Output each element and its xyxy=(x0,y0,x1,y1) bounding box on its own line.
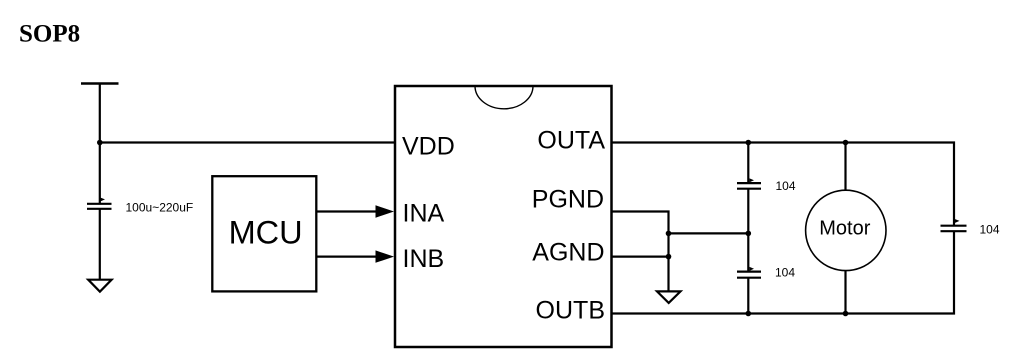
wire: supply vertical lower segment xyxy=(99,209,101,280)
polarity mark on bulk capacitor xyxy=(101,198,106,202)
wire OUTB (IC to right rail) xyxy=(612,231,955,313)
wire PGND (IC stub, down to ground) xyxy=(612,212,669,292)
capacitor 104 (right) plates xyxy=(941,225,967,227)
wire OUTA (IC to right rail) xyxy=(612,143,955,226)
wire: supply vertical upper segment xyxy=(99,84,101,204)
capacitor C-bulk 100u~220uF plates xyxy=(87,203,112,205)
ground (right) xyxy=(657,291,681,303)
capacitor 104 (lower) plates xyxy=(737,271,761,273)
junction: supply node dot xyxy=(97,140,103,146)
MCU box xyxy=(212,176,316,291)
svg-text:104: 104 xyxy=(775,266,795,280)
ground (left) xyxy=(88,280,111,292)
polarity mark right 104 xyxy=(955,219,960,223)
svg-text:VDD: VDD xyxy=(402,133,455,161)
junction dot capacitor midpoint xyxy=(746,231,752,237)
svg-text:OUTA: OUTA xyxy=(537,127,605,155)
svg-text:INB: INB xyxy=(403,245,445,273)
wire/arrow INB (MCU to IC) xyxy=(316,256,377,258)
wire/arrow INA (MCU to IC) xyxy=(316,210,377,212)
svg-text:OUTB: OUTB xyxy=(536,297,605,325)
junction dots on OUTB rail xyxy=(746,311,752,317)
svg-text:PGND: PGND xyxy=(532,186,604,214)
polarity mark lower 104 xyxy=(750,267,755,271)
motor M1 circle xyxy=(806,190,886,270)
junction dot PGND/branch xyxy=(666,231,672,237)
capacitor 104 (upper) plates xyxy=(737,182,761,184)
pin-1 notch arc xyxy=(475,86,533,109)
wire VDD (supply node to IC) xyxy=(100,141,396,143)
svg-text:Motor: Motor xyxy=(819,218,870,240)
junction dots on OUTA rail xyxy=(746,140,752,146)
svg-text:104: 104 xyxy=(776,179,796,193)
svg-text:104: 104 xyxy=(980,223,1000,237)
svg-text:100u~220uF: 100u~220uF xyxy=(126,201,194,215)
wire: motor branch upper xyxy=(844,143,846,191)
svg-text:SOP8: SOP8 xyxy=(19,21,80,48)
wire: capacitor branch vertical segments xyxy=(747,143,749,184)
svg-text:AGND: AGND xyxy=(532,239,604,267)
wire AGND (IC stub) xyxy=(612,256,669,258)
power flag (supply rail bar) xyxy=(81,82,119,85)
svg-text:INA: INA xyxy=(403,200,445,228)
junction dot AGND xyxy=(666,254,672,260)
svg-text:MCU: MCU xyxy=(229,215,303,251)
polarity mark upper 104 xyxy=(750,178,755,182)
wire: gnd node to capacitor midpoint xyxy=(669,232,749,234)
wire: motor branch lower xyxy=(844,271,846,314)
IC box U1 (SOP8 driver) xyxy=(395,86,612,347)
